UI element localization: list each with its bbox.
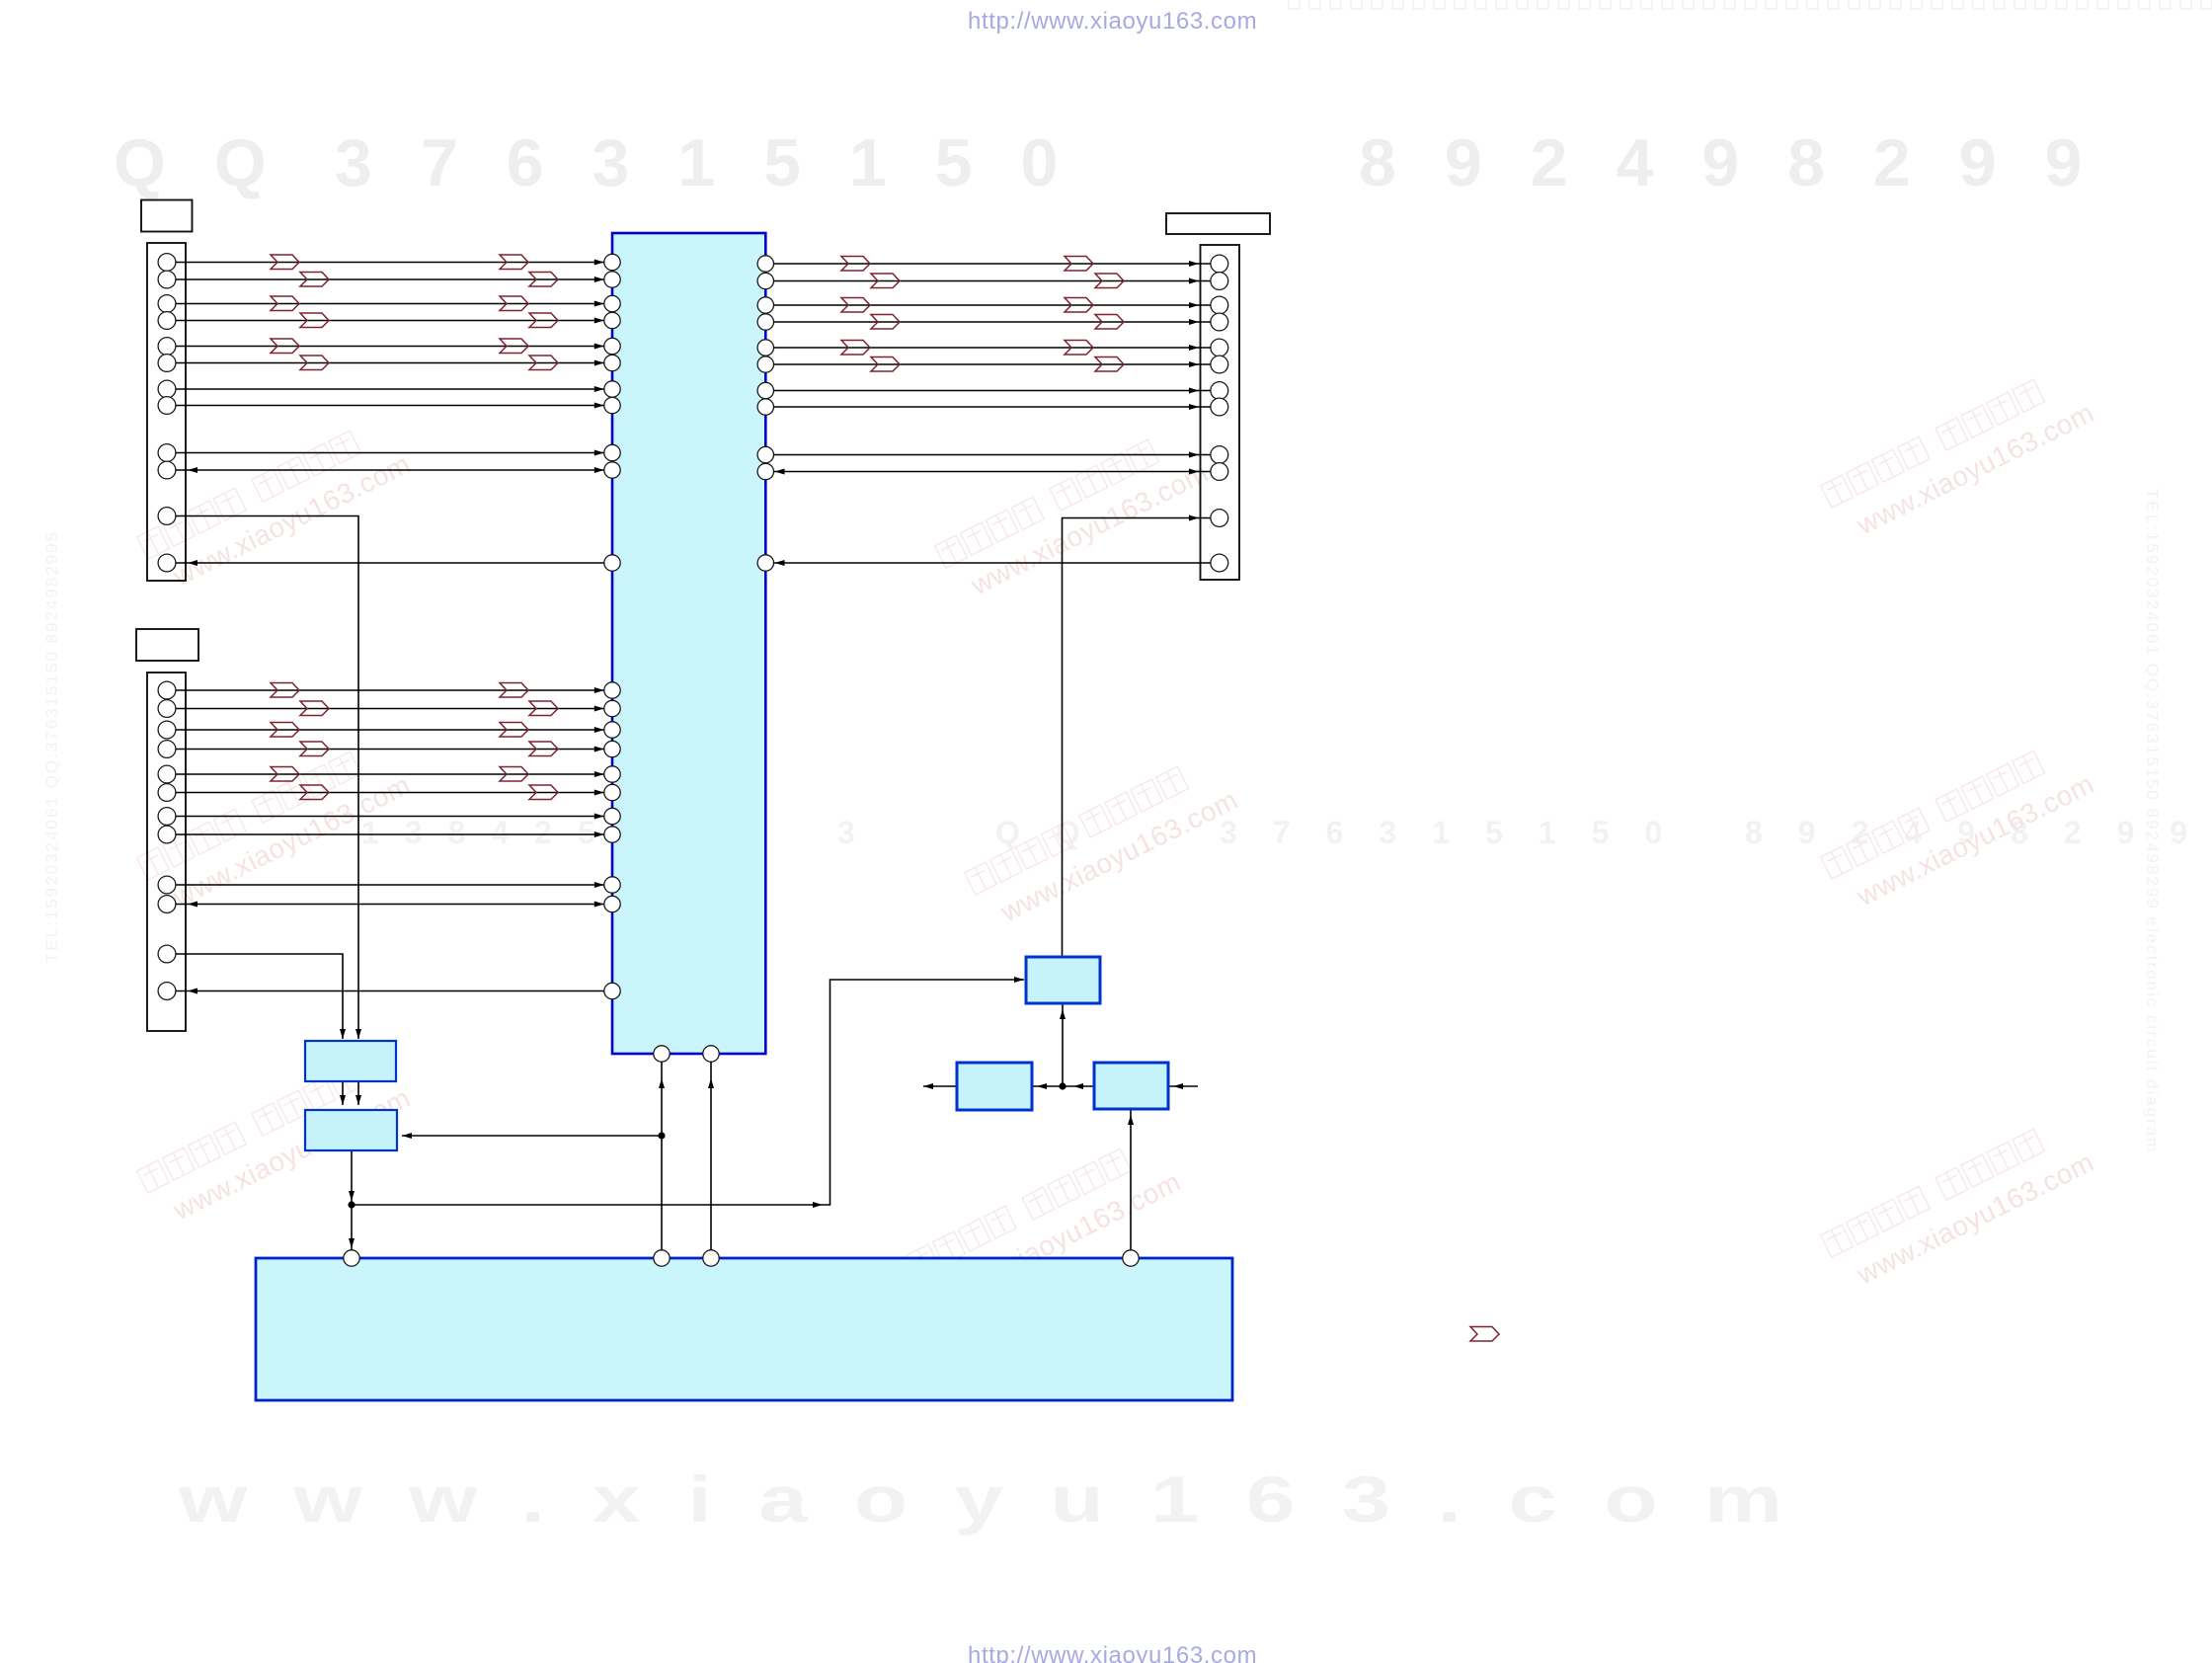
signal chevron C29 [841,298,870,313]
svg-text:QQ: QQ [995,815,1116,850]
signal chevron A2 [500,255,528,270]
signal chevron B22 [500,767,528,782]
block BIGBOX (bottom bus block) [256,1250,1232,1400]
block BOX3 [1026,957,1100,1003]
wire CN2 row 5 to U1 [176,771,604,777]
signal chevron B17 [271,723,299,738]
wire CN1 row 11 to BOX1 [176,516,361,1040]
wire CN1 row 5 to U1 [176,344,604,350]
connector CN2 label [136,629,198,661]
wire CN2 row 4 to U1 [176,747,604,752]
signal chevron B23 [300,785,329,800]
signal chevron A6 [500,296,528,311]
wire U1 to CN1 row 12 [176,560,604,566]
wire BOX5 to BOX4 through node [1032,1083,1094,1089]
svg-text:TEL:15920324061 QQ:376315150: TEL:15920324061 QQ:376315150 8924982995 [42,530,61,963]
watermark stamp center top [935,423,1214,608]
wire branch to BOX2 input [402,1133,662,1139]
signal chevron B21 [271,767,299,782]
wire CN1 row 4 to U1 [176,318,604,324]
svg-text:3: 3 [837,815,881,850]
watermark QQ numbers top [114,125,2130,200]
signal chevron A1 [271,255,299,270]
connector CN3 [1201,245,1240,580]
wire U1 to CN3 row 7 [774,388,1211,394]
signal chevron C27 [871,274,900,288]
signal chevron C30 [1065,298,1093,313]
connector CN2 [147,673,186,1031]
watermark stamp left bottom [137,1048,416,1233]
signal chevron C36 [1095,357,1124,372]
svg-text:892498299: 892498299 [1359,125,2130,200]
block BOX5 [1094,1063,1168,1109]
signal chevron B16 [529,701,558,716]
wire BOX3 bottom to node [1059,1003,1066,1090]
svg-text:QQ: QQ [114,125,315,200]
signal chevron A8 [529,313,558,328]
wire U1 bottom pin A to BIGBOX (branch to BOX2) [658,1062,665,1249]
wire CN1 row 2 to U1 [176,277,604,282]
signal chevron B24 [529,785,558,800]
watermark stamp left middle [137,735,416,920]
signal chevron C28 [1095,274,1124,288]
wire U1 to CN3 row 3 [774,302,1211,308]
signal chevron A7 [300,313,329,328]
wire CN2 row 1 to U1 [176,687,604,693]
svg-text:http://www.xiaoyu163.com: http://www.xiaoyu163.com [968,1642,1257,1663]
signal chevron C35 [871,357,900,372]
wire U1 to CN3 row 10 (bidirectional) [774,469,1211,475]
wire BIGBOX to BOX5 [1128,1109,1134,1250]
wire CN2 row 9 to U1 [176,882,604,888]
wire CN1 row 3 to U1 [176,301,604,307]
svg-text:http://www.xiaoyu163.com: http://www.xiaoyu163.com [968,8,1257,35]
wire BOX4 output left [923,1083,957,1089]
wire input to BOX5 right [1168,1083,1198,1089]
connector CN1 label [141,200,193,232]
wire CN1 row 7 to U1 [176,386,604,392]
signal chevron C32 [1095,315,1124,330]
wire CN2 row 6 to U1 [176,790,604,796]
signal chevron C26 [1065,257,1093,272]
wire CN1 row 9 to U1 [176,450,604,456]
watermark QQ numbers middle left [361,815,881,850]
signal chevron B19 [300,742,329,756]
watermark QQ numbers middle right [995,815,2212,850]
wire BOX2 to BIGBOX [348,1150,355,1250]
wire U1 to CN2 row 12 [176,989,604,994]
watermark stamp right bottom [1821,1112,2099,1298]
signal chevron A11 [300,356,329,370]
svg-text:www.xiaoyu163.com: www.xiaoyu163.com [178,1463,1829,1536]
wire U1 bottom pin B to BIGBOX [708,1062,714,1249]
wire CN3 row 11 to BOX3 [1063,515,1211,958]
watermark strip top edge [1289,0,2212,9]
wire CN1 row 6 to U1 [176,360,604,366]
wire CN2 row 10 to U1 (bidirectional) [176,902,604,908]
signal chevron A3 [300,273,329,287]
signal chevron B20 [529,742,558,756]
watermark stamp center bottom [908,1132,1186,1317]
watermark stamp right top [1821,362,2099,548]
wire BOX1 to BOX2 right [355,1081,361,1105]
svg-text:376315150: 376315150 [1220,815,1698,850]
wire U1 to CN3 row 1 [774,261,1211,267]
signal chevron A12 [529,356,558,370]
wire CN2 row 7 to U1 [176,814,604,820]
signal chevron B13 [271,683,299,698]
block BOX2 [305,1110,397,1150]
watermark www.xiaoyu163.com bottom [178,1463,1829,1536]
wire CN1 row 10 to U1 (bidirectional) [176,467,604,473]
wire CN1 row 1 to U1 [176,260,604,266]
connector CN3 label [1166,213,1270,234]
signal chevron C25 [841,257,870,272]
signal chevron A5 [271,296,299,311]
wire CN2 row 3 to U1 [176,727,604,733]
wire CN2 row 8 to U1 [176,831,604,837]
signal chevron A9 [271,339,299,354]
signal chevron isolated [1470,1327,1499,1342]
signal chevron C34 [1065,341,1093,356]
wire BOX1 to BOX2 left [340,1081,346,1105]
IC U1 (main processor block) [604,233,774,1062]
signal chevron B15 [300,701,329,716]
block BOX4 [957,1063,1032,1110]
block BOX1 [305,1041,396,1081]
signal chevron A10 [500,339,528,354]
wire CN3 row 12 to U1 [774,560,1211,566]
wire U1 to CN3 row 2 [774,278,1211,284]
signal chevron C31 [871,315,900,330]
signal chevron B14 [500,683,528,698]
wire U1 to CN3 row 4 [774,319,1211,325]
wire U1 to CN3 row 5 [774,345,1211,351]
watermark vertical left edge [42,530,61,963]
watermark stamp right middle [1821,734,2099,919]
wire U1 to CN3 row 8 [774,404,1211,410]
signal chevron A4 [529,273,558,287]
svg-text:TEL:15920324061 QQ:376315150: TEL:15920324061 QQ:376315150 892498299 e… [2143,489,2162,1153]
connector CN1 [147,243,186,581]
watermark stamp left top [137,414,416,599]
wire CN1 row 8 to U1 [176,403,604,409]
watermark stamp center middle [965,750,1243,935]
wire CN2 row 2 to U1 [176,706,604,712]
wire node to BOX3 feed [352,977,1024,1208]
wire CN2 row 11 to BOX1 [176,954,346,1039]
signal chevron C33 [841,341,870,356]
svg-text:376315150: 376315150 [335,125,1106,200]
wire U1 to CN3 row 6 [774,361,1211,367]
signal chevron B18 [500,723,528,738]
wire U1 to CN3 row 9 [774,452,1211,458]
watermark vertical right edge [2143,489,2162,1153]
